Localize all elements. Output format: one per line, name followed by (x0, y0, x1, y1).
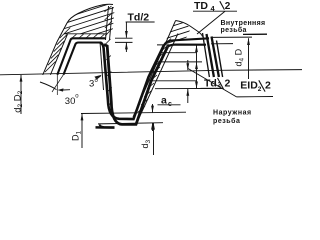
svg-text:c: c (168, 101, 172, 108)
svg-text:EID: EID (240, 80, 258, 92)
svg-text:2: 2 (265, 80, 271, 92)
svg-text:Td/2: Td/2 (128, 12, 150, 24)
svg-text:резьба: резьба (213, 117, 240, 125)
svg-text:30: 30 (65, 96, 76, 107)
svg-text:a: a (161, 95, 167, 107)
svg-text:2: 2 (258, 86, 262, 93)
svg-text:2: 2 (225, 78, 231, 90)
svg-text:d3: d3 (140, 139, 152, 148)
svg-text:d2 D2: d2 D2 (12, 90, 24, 112)
svg-text:d4 D: d4 D (234, 48, 246, 66)
svg-text:Td: Td (204, 77, 217, 89)
svg-text:o: o (95, 78, 99, 84)
svg-text:резьба: резьба (221, 26, 247, 34)
svg-text:2: 2 (225, 1, 231, 12)
svg-text:o: o (75, 94, 79, 100)
svg-text:Наружная: Наружная (213, 110, 252, 117)
svg-text:3: 3 (89, 78, 94, 89)
svg-text:D1: D1 (71, 131, 83, 142)
svg-text:TD4: TD4 (194, 0, 216, 13)
